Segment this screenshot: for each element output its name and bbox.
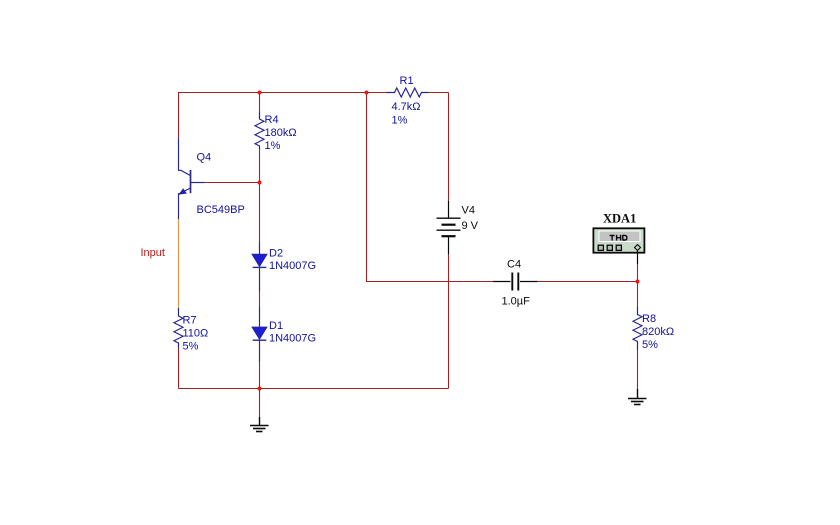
svg-text:1N4007G: 1N4007G [269,333,316,345]
distortion analyzer XDA1 [593,228,644,264]
svg-text:R1: R1 [400,75,414,87]
svg-text:C4: C4 [507,259,521,271]
wire: top rail from collector corner to R1 left lead [179,93,387,139]
wire: V4 top lead from top rail [448,93,450,201]
ground (bottom rail) [250,417,269,432]
ground (R8) [628,389,647,405]
svg-text:Input: Input [141,247,165,259]
svg-text:9 V: 9 V [462,220,479,232]
svg-text:V4: V4 [462,205,475,217]
svg-text:R7: R7 [183,315,197,327]
svg-text:820kΩ: 820kΩ [642,326,674,338]
wire: between diodes D2 and D1 [259,291,261,307]
svg-text:180kΩ: 180kΩ [265,127,297,139]
svg-text:BC549BP: BC549BP [197,204,245,216]
svg-text:1N4007G: 1N4007G [269,260,316,272]
svg-text:R4: R4 [265,114,279,126]
node: junction top rail / C4 branch [365,91,369,95]
transistor Q4 [179,139,205,220]
wire: R4 top lead connection [259,93,261,112]
svg-text:1.0µF: 1.0µF [502,296,531,308]
wire: branch from top rail down to C4 [367,93,494,282]
svg-text:D2: D2 [269,248,283,260]
svg-text:1%: 1% [265,140,281,152]
wire: R8 bottom to ground [637,350,639,389]
wire: R1 right lead to V4 corner [429,92,449,94]
resistor R7 [174,308,183,349]
resistor R1 [387,88,429,97]
svg-text:D1: D1 [269,320,283,332]
wire: R7 bottom to bottom rail left corner [178,349,180,389]
wire: V4 bottom to bottom rail [448,255,450,389]
wire: R4 bottom to base junction and down to D2 [259,150,261,243]
wire: base net from Q4 base to R4/D2 rail [205,182,260,184]
wire: bottom rail [179,388,449,390]
svg-text:5%: 5% [183,341,199,353]
svg-text:110Ω: 110Ω [183,328,209,340]
svg-text:Q4: Q4 [197,152,212,164]
resistor R4 [255,112,264,150]
diode D2 [252,242,267,291]
node: junction bottom rail / ground [258,387,262,391]
wire: D1 cathode down to bottom rail [259,362,261,388]
svg-text:5%: 5% [642,339,658,351]
svg-text:XDA1: XDA1 [603,212,636,226]
node: junction C4 / XDA1 / R8 [636,280,640,284]
wire: C4 right plate to output node [538,281,638,283]
wire: Input net (orange) from Q4 emitter to R7 [178,219,180,308]
wire: XDA1 terminal down to output node [637,264,639,282]
diode D1 [252,307,267,363]
node: junction base / R4-D2 rail [258,181,262,185]
wire: output node down to R8 [637,282,639,308]
node: junction top rail / R4 [258,91,262,95]
capacitor C4 [493,273,538,291]
svg-text:4.7kΩ: 4.7kΩ [392,101,421,113]
battery V4 [437,201,461,255]
wire: ground stub below bottom rail [259,389,261,418]
svg-text:R8: R8 [642,313,656,325]
resistor R8 [633,307,642,350]
svg-text:1%: 1% [392,115,408,127]
